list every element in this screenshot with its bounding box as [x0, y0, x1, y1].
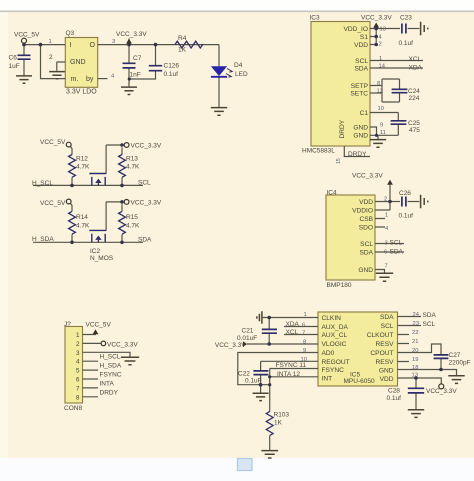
svg-text:4.7K: 4.7K [76, 223, 90, 230]
svg-text:0.1uf: 0.1uf [387, 395, 402, 402]
svg-text:13: 13 [380, 27, 386, 33]
svg-text:22: 22 [412, 330, 418, 336]
svg-text:14: 14 [379, 63, 386, 69]
svg-text:1K: 1K [178, 47, 187, 54]
svg-text:9: 9 [303, 348, 306, 354]
svg-text:FSYNC: FSYNC [100, 372, 122, 379]
svg-text:VCC_3.3V: VCC_3.3V [361, 15, 392, 22]
svg-text:SCL: SCL [138, 179, 151, 186]
svg-text:DRDY: DRDY [348, 151, 367, 158]
svg-text:Q3: Q3 [66, 30, 75, 37]
svg-text:475: 475 [409, 127, 420, 134]
svg-text:24: 24 [413, 312, 420, 318]
svg-text:INT: INT [322, 376, 333, 383]
svg-text:LED: LED [235, 71, 248, 78]
svg-text:1: 1 [49, 39, 52, 45]
svg-text:SDA: SDA [138, 236, 152, 243]
svg-text:VDD: VDD [380, 376, 394, 383]
svg-text:R13: R13 [126, 155, 138, 162]
svg-text:1uF: 1uF [9, 63, 20, 70]
svg-text:HMC5883L: HMC5883L [302, 147, 335, 154]
svg-text:C126: C126 [164, 63, 180, 70]
svg-text:FSYNC: FSYNC [322, 367, 345, 374]
svg-text:VCC_5V: VCC_5V [86, 321, 112, 328]
svg-text:C27: C27 [449, 352, 461, 359]
svg-text:SDA: SDA [390, 248, 404, 255]
svg-text:C7: C7 [133, 55, 142, 62]
svg-text:20: 20 [412, 348, 418, 354]
svg-text:2: 2 [379, 42, 382, 48]
svg-text:2200pF: 2200pF [449, 360, 471, 367]
svg-text:10: 10 [301, 357, 307, 363]
svg-text:19: 19 [412, 357, 418, 363]
svg-text:VDD: VDD [359, 199, 373, 206]
svg-text:SETP: SETP [351, 83, 369, 90]
svg-text:IC3: IC3 [310, 15, 321, 22]
svg-text:3: 3 [76, 350, 80, 357]
svg-text:SCL: SCL [360, 241, 373, 248]
svg-text:13: 13 [412, 372, 418, 378]
svg-text:9: 9 [380, 122, 383, 128]
svg-text:R14: R14 [76, 214, 88, 221]
svg-text:VDDIO: VDDIO [352, 208, 373, 215]
svg-text:RESV: RESV [376, 359, 395, 366]
svg-text:C21: C21 [242, 328, 254, 335]
svg-text:CLKOUT: CLKOUT [367, 332, 394, 339]
svg-text:VCC_3.3V: VCC_3.3V [352, 172, 383, 179]
svg-text:CLKIN: CLKIN [322, 315, 342, 322]
svg-text:0.1uf: 0.1uf [399, 213, 414, 220]
svg-text:1: 1 [379, 56, 382, 62]
svg-text:DRDY: DRDY [339, 119, 346, 138]
svg-text:SDA: SDA [359, 250, 373, 257]
svg-text:2: 2 [384, 197, 387, 203]
svg-text:m.: m. [71, 76, 79, 83]
svg-text:8: 8 [377, 81, 380, 87]
svg-text:GND: GND [353, 125, 368, 132]
svg-text:REGOUT: REGOUT [322, 359, 350, 366]
svg-text:XCL: XCL [286, 329, 299, 336]
svg-text:CPOUT: CPOUT [370, 350, 393, 357]
svg-text:R4: R4 [178, 35, 187, 42]
svg-text:4.7K: 4.7K [126, 164, 140, 171]
svg-text:VCC_5V: VCC_5V [14, 32, 40, 39]
svg-text:J?: J? [64, 321, 71, 328]
svg-text:INTA: INTA [100, 380, 115, 387]
svg-text:CSB: CSB [359, 216, 373, 223]
svg-text:SCL: SCL [390, 240, 403, 247]
svg-text:1nF: 1nF [130, 72, 141, 79]
svg-text:224: 224 [409, 95, 420, 102]
svg-text:0.1uF: 0.1uF [245, 378, 262, 385]
svg-text:SDA: SDA [423, 312, 437, 319]
svg-text:VCC_5V: VCC_5V [40, 200, 66, 207]
svg-text:2: 2 [76, 341, 80, 348]
svg-text:1: 1 [304, 312, 307, 318]
svg-text:SCL: SCL [355, 58, 368, 65]
svg-text:SDO: SDO [359, 225, 373, 232]
svg-text:I: I [70, 42, 72, 49]
svg-text:VLOGIC: VLOGIC [322, 341, 347, 348]
svg-text:C28: C28 [388, 388, 400, 395]
svg-text:VCC_3.3V: VCC_3.3V [215, 342, 246, 349]
svg-text:6: 6 [302, 323, 305, 329]
svg-text:5: 5 [76, 368, 80, 375]
svg-text:AUX_DA: AUX_DA [322, 324, 349, 331]
svg-text:C1: C1 [360, 110, 369, 117]
svg-text:D4: D4 [234, 62, 243, 69]
svg-text:H_SDA: H_SDA [100, 363, 122, 370]
svg-text:7: 7 [302, 330, 305, 336]
svg-text:18: 18 [412, 365, 418, 371]
svg-text:R15: R15 [126, 214, 138, 221]
svg-text:21: 21 [412, 339, 418, 345]
svg-text:S1: S1 [360, 34, 368, 41]
svg-text:SCL: SCL [381, 323, 394, 330]
svg-text:C22: C22 [238, 371, 250, 378]
svg-text:by: by [86, 76, 94, 83]
svg-text:6: 6 [76, 377, 80, 384]
svg-text:MPU-6050: MPU-6050 [344, 378, 375, 385]
svg-text:1K: 1K [274, 420, 283, 427]
svg-text:VCC_5V: VCC_5V [40, 139, 66, 146]
svg-text:H_SCL: H_SCL [100, 354, 121, 361]
svg-text:3.3V LDO: 3.3V LDO [66, 89, 97, 96]
svg-text:8: 8 [76, 394, 80, 401]
svg-text:N_MOS: N_MOS [90, 255, 114, 262]
svg-text:3: 3 [112, 39, 115, 45]
svg-text:C26: C26 [399, 190, 411, 197]
svg-text:2: 2 [49, 54, 53, 61]
svg-text:GND: GND [379, 368, 394, 375]
svg-text:IC4: IC4 [327, 189, 338, 196]
svg-text:8: 8 [303, 339, 306, 345]
svg-text:4: 4 [76, 359, 80, 366]
svg-text:1: 1 [385, 213, 388, 219]
svg-text:H_SDA: H_SDA [32, 236, 54, 243]
svg-text:XDA: XDA [286, 321, 300, 328]
svg-text:15: 15 [336, 158, 342, 164]
svg-text:O: O [90, 42, 96, 49]
svg-text:GND: GND [70, 59, 86, 66]
svg-text:10: 10 [378, 106, 384, 112]
svg-text:VCC_3.3V: VCC_3.3V [107, 341, 138, 348]
svg-text:VCC_3.3V: VCC_3.3V [131, 199, 162, 206]
svg-text:1: 1 [76, 332, 80, 339]
svg-text:4.7K: 4.7K [126, 223, 140, 230]
svg-text:AUX_CL: AUX_CL [322, 332, 348, 339]
svg-text:12: 12 [377, 88, 383, 94]
svg-text:R12: R12 [76, 155, 88, 162]
svg-text:3: 3 [385, 241, 388, 247]
svg-text:4.7K: 4.7K [76, 164, 90, 171]
svg-text:11: 11 [380, 130, 386, 136]
svg-text:VDD: VDD [354, 42, 368, 49]
svg-text:INTA 12: INTA 12 [277, 371, 300, 378]
svg-text:H_SCL: H_SCL [32, 180, 53, 187]
svg-text:FSYNC 11: FSYNC 11 [276, 362, 307, 369]
svg-text:23: 23 [413, 321, 419, 327]
svg-text:RESV: RESV [376, 341, 395, 348]
svg-text:SDA: SDA [380, 314, 394, 321]
svg-text:VCC_3.3V: VCC_3.3V [131, 142, 162, 149]
svg-text:VCC_3.3V: VCC_3.3V [426, 388, 457, 395]
svg-text:C6: C6 [9, 55, 18, 62]
svg-text:0.1uf: 0.1uf [164, 71, 179, 78]
svg-text:CON8: CON8 [64, 405, 82, 412]
svg-text:BMP180: BMP180 [327, 282, 352, 289]
svg-text:VCC_3.3V: VCC_3.3V [116, 31, 147, 38]
svg-text:GND: GND [358, 267, 373, 274]
svg-text:DRDY: DRDY [100, 389, 119, 396]
svg-text:XCL: XCL [409, 56, 422, 63]
svg-text:7: 7 [76, 385, 80, 392]
svg-text:AD0: AD0 [322, 350, 335, 357]
svg-text:R103: R103 [274, 411, 290, 418]
svg-text:SCL: SCL [423, 321, 436, 328]
svg-text:0.1uf: 0.1uf [399, 40, 414, 47]
svg-text:SETC: SETC [350, 91, 368, 98]
svg-text:GND: GND [353, 133, 368, 140]
svg-text:C23: C23 [400, 15, 412, 22]
svg-text:SDA: SDA [354, 66, 368, 73]
svg-text:XDA: XDA [409, 65, 423, 72]
svg-text:7: 7 [385, 264, 388, 270]
svg-text:6: 6 [384, 249, 387, 255]
svg-text:VDD_IO: VDD_IO [343, 26, 368, 33]
